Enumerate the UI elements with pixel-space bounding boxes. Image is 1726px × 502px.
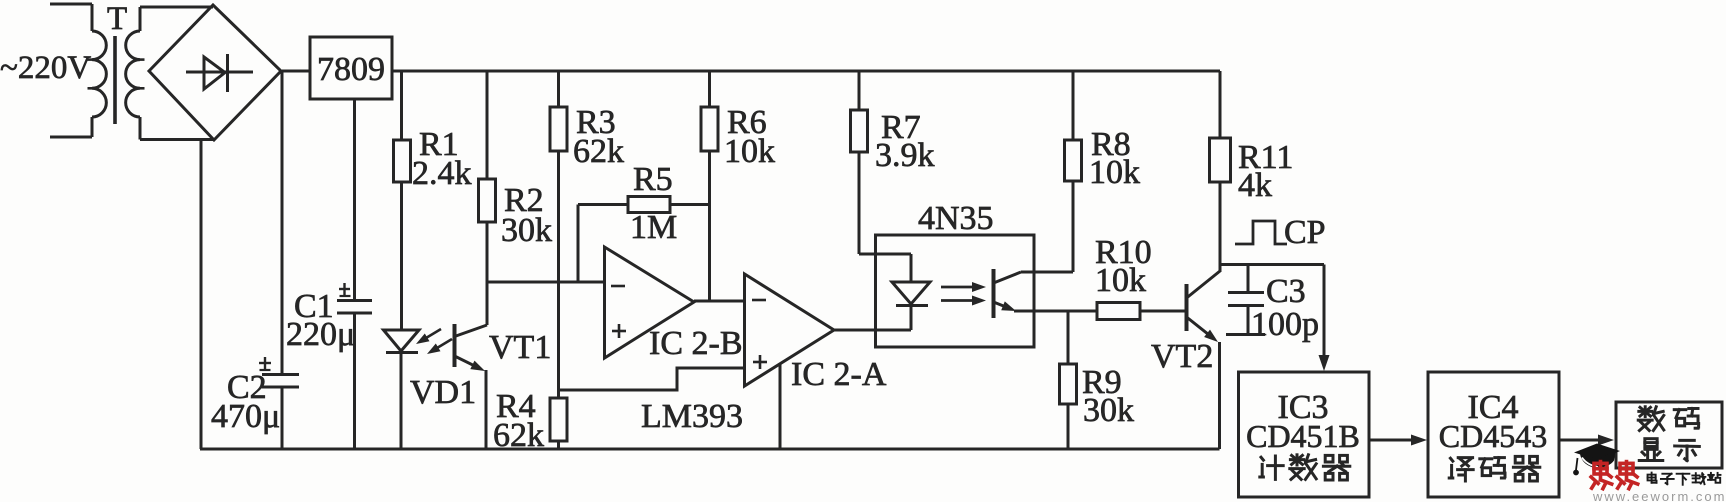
- svg-text:LM393: LM393: [641, 398, 743, 435]
- svg-text:30k: 30k: [1083, 392, 1134, 429]
- svg-text:10k: 10k: [1089, 154, 1140, 191]
- svg-text:VD1: VD1: [410, 374, 476, 411]
- svg-text:1M: 1M: [630, 209, 677, 246]
- svg-text:CD451B: CD451B: [1246, 418, 1360, 454]
- svg-text:7809: 7809: [317, 51, 385, 88]
- svg-text:62k: 62k: [493, 417, 544, 454]
- svg-text:100p: 100p: [1251, 306, 1319, 343]
- svg-text:www.eeworm.com: www.eeworm.com: [1592, 489, 1726, 502]
- svg-text:30k: 30k: [501, 212, 552, 249]
- svg-text:VT1: VT1: [489, 329, 551, 366]
- svg-text:220μ: 220μ: [286, 316, 355, 353]
- svg-text:62k: 62k: [573, 133, 624, 170]
- svg-text:IC 2-A: IC 2-A: [791, 356, 887, 393]
- svg-text:T: T: [107, 1, 127, 37]
- svg-text:CD4543: CD4543: [1439, 418, 1547, 454]
- svg-text:2.4k: 2.4k: [412, 155, 472, 192]
- svg-text:C3: C3: [1266, 273, 1306, 310]
- svg-text:CP: CP: [1284, 214, 1326, 251]
- svg-text:IC 2-B: IC 2-B: [649, 325, 743, 362]
- svg-text:4k: 4k: [1238, 167, 1272, 204]
- svg-text:R5: R5: [633, 161, 673, 198]
- svg-text:3.9k: 3.9k: [875, 137, 935, 174]
- svg-text:~220V: ~220V: [0, 50, 91, 86]
- svg-text:4N35: 4N35: [918, 200, 994, 237]
- svg-text:470μ: 470μ: [211, 398, 280, 435]
- svg-text:10k: 10k: [724, 133, 775, 170]
- svg-text:VT2: VT2: [1151, 338, 1213, 375]
- svg-text:10k: 10k: [1095, 262, 1146, 299]
